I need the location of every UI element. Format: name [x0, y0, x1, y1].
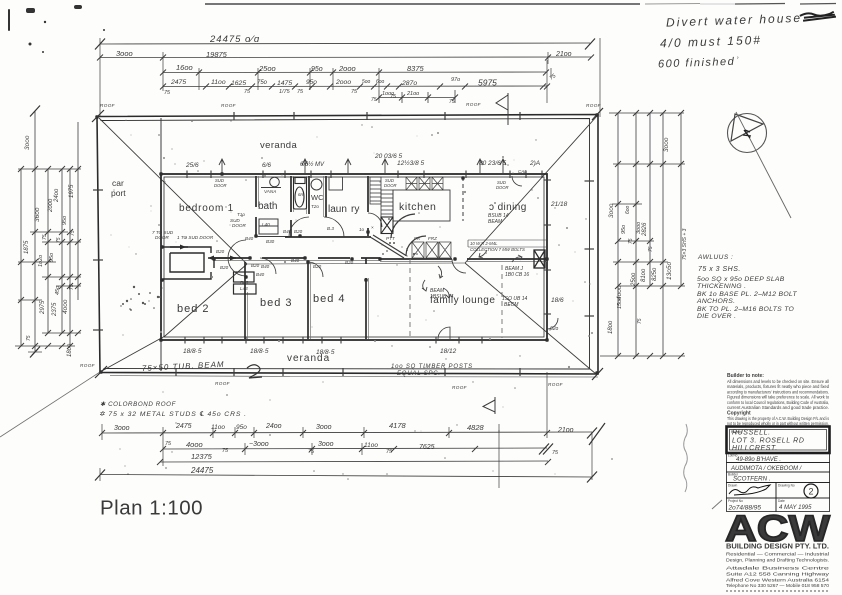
svg-text:DOOR: DOOR: [214, 183, 227, 188]
svg-text:1/75: 1/75: [279, 89, 291, 95]
robe cupboards bed3: [234, 272, 257, 294]
svg-text:287o: 287o: [401, 80, 417, 87]
builder note paragraph: [727, 373, 830, 426]
veranda corner slashes: [92, 108, 603, 380]
svg-text:AWLUUS :: AWLUUS :: [697, 254, 733, 261]
svg-text:11oo: 11oo: [364, 442, 378, 449]
svg-text:1625: 1625: [231, 80, 246, 87]
svg-text:ROOF: ROOF: [215, 381, 231, 386]
svg-text:2)A: 2)A: [529, 160, 540, 167]
kitchen bench outline: [393, 190, 450, 221]
builder row: [727, 472, 830, 483]
svg-text:B40: B40: [256, 272, 265, 277]
door arc dining north: [512, 176, 522, 186]
roof hip diagonal top-right: [465, 116, 597, 263]
svg-text:2ooo: 2ooo: [335, 79, 351, 86]
svg-text:1475: 1475: [277, 80, 292, 87]
window vent arrows: [219, 159, 506, 173]
drawn / drawing no row: [727, 483, 830, 499]
svg-text:DOOR: DOOR: [155, 235, 169, 240]
wall junction ink blobs: [95, 113, 598, 374]
svg-text:Telephone No 330 5267 — Mob: Telephone No 330 5267 — Mobile 018 958 5…: [726, 583, 830, 588]
project box: [727, 427, 830, 454]
svg-text:ROOF: ROOF: [548, 382, 564, 387]
svg-text:80 23/6 5: 80 23/6 5: [479, 160, 506, 167]
svg-text:18/8·5: 18/8·5: [250, 348, 269, 355]
dining fireplace block: [534, 250, 545, 268]
survey flag top: [496, 93, 508, 125]
svg-text:VANA: VANA: [264, 189, 276, 194]
svg-text:EQUAL SPC.: EQUAL SPC.: [397, 371, 441, 377]
svg-text:24475 o⁄ɑ: 24475 o⁄ɑ: [209, 34, 260, 45]
svg-text:bedroom 1: bedroom 1: [179, 203, 234, 214]
svg-text:Divert water house: Divert water house: [666, 11, 802, 30]
svg-text:Design, Planning and Drafti: Design, Planning and Drafting Technologi…: [726, 558, 829, 563]
door arc dining veranda: [547, 318, 558, 329]
svg-text:97o: 97o: [451, 77, 460, 83]
svg-text:75: 75: [297, 89, 304, 95]
svg-text:T2o: T2o: [311, 204, 319, 209]
svg-text:62o: 62o: [550, 326, 559, 332]
svg-text:bath: bath: [258, 201, 277, 212]
svg-text:ROOF: ROOF: [452, 385, 468, 390]
wall WC / laundry: [325, 176, 327, 217]
pantry hatched box: [381, 217, 393, 234]
svg-text:21oo: 21oo: [557, 427, 574, 434]
svg-text:18/12: 18/12: [440, 348, 457, 355]
svg-text:CAL: CAL: [518, 169, 527, 174]
project no / date row: [727, 498, 830, 512]
kitchen / dining dashed divider: [462, 177, 464, 221]
pantry shelving ladder A: [370, 177, 381, 204]
svg-text:3ooo: 3ooo: [116, 49, 133, 58]
svg-text:75: 75: [56, 237, 62, 243]
materials notes: [696, 254, 797, 320]
door arc bed 3: [260, 258, 276, 274]
svg-text:6oo: 6oo: [376, 79, 385, 85]
svg-text:20 03/6 5: 20 03/6 5: [374, 153, 402, 160]
svg-text:75: 75: [244, 89, 251, 95]
svg-text:bed 2: bed 2: [177, 303, 210, 315]
svg-text:ANCHORS.: ANCHORS.: [696, 298, 735, 305]
house external wall (double line): [161, 174, 547, 340]
svg-text:B20: B20: [313, 264, 322, 269]
svg-text:−3ooo: −3ooo: [249, 441, 269, 448]
svg-text:25oo: 25oo: [631, 272, 637, 287]
bottom witness lines: [100, 372, 592, 488]
svg-text:laun: laun: [328, 204, 347, 215]
svg-text:18oo: 18oo: [608, 320, 614, 334]
svg-text:DOOR: DOOR: [232, 223, 246, 228]
corridor south wall: [214, 257, 380, 259]
svg-text:75o: 75o: [257, 80, 268, 86]
svg-text:4ooo: 4ooo: [62, 299, 69, 314]
svg-text:4828: 4828: [467, 423, 485, 432]
survey flag bottom right: [483, 397, 495, 414]
svg-text:1BSUB 14: 1BSUB 14: [430, 294, 454, 300]
svg-text:FRZ: FRZ: [428, 236, 437, 241]
squiggle 2: [247, 365, 262, 378]
svg-text:port: port: [111, 188, 126, 198]
roof hip diagonal top-left: [99, 118, 247, 264]
carport speckle cluster: [120, 242, 418, 311]
svg-text:13o5o: 13o5o: [666, 262, 673, 280]
svg-text:BK TO PL. 2–M16 BOLTS TO: BK TO PL. 2–M16 BOLTS TO: [697, 306, 795, 313]
svg-text:B20: B20: [294, 229, 303, 234]
svg-text:11oo: 11oo: [211, 79, 226, 86]
svg-text:t.: t.: [406, 247, 409, 252]
svg-text:Attadale: Attadale Business Centre: [726, 566, 830, 571]
dimension row T4: [163, 85, 547, 88]
window ticks right wall: [544, 180, 552, 314]
svg-text:7625: 7625: [419, 444, 435, 451]
svg-text:18/8·5: 18/8·5: [316, 349, 335, 356]
svg-text:75: 75: [351, 89, 358, 95]
svg-text:75: 75: [165, 441, 172, 447]
store room in bed zone: [163, 245, 236, 280]
svg-text:SCOTFERN .: SCOTFERN .: [733, 476, 770, 483]
svg-text:veranda: veranda: [260, 140, 297, 151]
svg-text:B40: B40: [245, 236, 254, 241]
svg-text:Project No: Project No: [728, 499, 743, 503]
svg-text:kitchen: kitchen: [399, 201, 436, 213]
svg-text:75: 75: [70, 230, 76, 236]
ACW address lines: [726, 566, 830, 589]
window ticks top wall: [187, 171, 542, 179]
door arc family south: [438, 327, 450, 339]
svg-text:2ooo: 2ooo: [338, 64, 356, 73]
svg-text:3ooo: 3ooo: [608, 203, 615, 218]
svg-text:ROOF: ROOF: [80, 363, 96, 368]
roof ridge line: [247, 263, 465, 264]
svg-text:75: 75: [628, 238, 634, 244]
door arc bed 4: [308, 262, 323, 277]
svg-text:ROOF: ROOF: [221, 103, 237, 108]
svg-text:24oo: 24oo: [54, 188, 60, 203]
svg-text:75×50 TUB. BEAM: 75×50 TUB. BEAM: [142, 360, 225, 373]
wall bed3 / bed4: [307, 262, 309, 339]
svg-text:600 finishedʾ: 600 finishedʾ: [658, 56, 741, 71]
svg-text:B40: B40: [291, 258, 300, 263]
svg-text:B40: B40: [240, 280, 249, 285]
fridge freezer hatched squares: [412, 242, 451, 258]
svg-text:75: 75: [371, 97, 377, 103]
dimension row T2: [100, 56, 591, 59]
bath & laundry south wall: [256, 236, 290, 238]
left dimension tick rows: [15, 169, 81, 352]
svg-text:Drawn: Drawn: [728, 484, 737, 488]
svg-text:75×3 SHS + 3: 75×3 SHS + 3: [682, 228, 688, 260]
kitchen corner diagonal bench: [371, 214, 426, 258]
svg-text:2375: 2375: [52, 302, 58, 317]
drawing number circle: [804, 484, 818, 498]
svg-text:Date: Date: [778, 499, 785, 503]
svg-text:4ooo: 4ooo: [186, 440, 203, 449]
suburb row: [727, 463, 830, 473]
svg-text:2826: 2826: [642, 222, 648, 237]
svg-text:HILLCREST.: HILLCREST.: [732, 445, 778, 452]
dimension row T5: [379, 90, 455, 103]
svg-text:Residential — Commercial —: Residential — Commercial — Industrial: [726, 552, 829, 557]
pencil squiggle left of title block: [684, 424, 688, 492]
dimension row B3: [160, 461, 548, 462]
svg-text:Suite A12 558: Suite A12 558 Canning Highway: [726, 572, 830, 577]
svg-text:75: 75: [549, 73, 558, 82]
svg-text:4/0 must 150#: 4/0 must 150#: [660, 33, 762, 51]
svg-text:ROOF: ROOF: [466, 102, 482, 107]
svg-text:16oo: 16oo: [176, 63, 193, 72]
family / lounge dashed beam lines: [409, 259, 411, 339]
svg-text:Plan 1:100: Plan 1:100: [100, 497, 203, 520]
door arc family entry: [452, 259, 466, 273]
svg-text:95o: 95o: [306, 79, 317, 86]
svg-text:L40: L40: [262, 222, 270, 227]
big slash bottom right: [589, 423, 605, 445]
door arc WC: [289, 217, 309, 237]
svg-text:FR: FR: [414, 236, 421, 241]
dimension row B2: [163, 448, 547, 449]
svg-text:Drawing No: Drawing No: [778, 484, 795, 488]
svg-text:18/6: 18/6: [551, 297, 564, 304]
svg-text:bed 3: bed 3: [260, 297, 293, 309]
pencil note line 1: Divert water house: [666, 10, 836, 30]
svg-text:BECM: BECM: [504, 302, 519, 308]
svg-text:3ooo: 3ooo: [316, 424, 332, 431]
svg-text:95o: 95o: [236, 424, 247, 431]
svg-text:8375: 8375: [407, 64, 425, 73]
scan speckle dots: [111, 120, 613, 480]
svg-text:1ooo: 1ooo: [382, 91, 394, 97]
svg-text:75: 75: [637, 318, 643, 324]
svg-text:12375: 12375: [191, 452, 213, 461]
svg-text:75: 75: [449, 99, 455, 105]
svg-text:1B0 CB 16: 1B0 CB 16: [505, 272, 529, 278]
svg-text:6/6: 6/6: [262, 162, 271, 169]
svg-text:21/18: 21/18: [550, 201, 568, 208]
svg-text:3ooo: 3ooo: [114, 425, 130, 432]
svg-text:6/6½ MV: 6/6½ MV: [300, 161, 325, 168]
svg-text:current Australian Standards a: current Australian Standards and good tr…: [727, 405, 829, 410]
svg-text:6oo: 6oo: [625, 205, 631, 214]
right dimension tick rows: [600, 113, 685, 356]
svg-text:36oo: 36oo: [34, 207, 41, 222]
svg-text:95o: 95o: [62, 216, 68, 225]
veranda post marks: [93, 112, 594, 376]
svg-text:WC: WC: [311, 193, 324, 202]
dining collection bolts note box: [468, 240, 546, 247]
page top edge line: [205, 3, 836, 6]
svg-text:B20: B20: [345, 260, 354, 265]
dimension row T3: [163, 71, 546, 74]
svg-text:bed 4: bed 4: [313, 293, 346, 305]
svg-text:B20: B20: [216, 249, 225, 254]
pantry shelving ladder B: [381, 190, 393, 217]
svg-text:BEAM: BEAM: [488, 219, 503, 225]
dimension row B1: [102, 432, 592, 433]
svg-text:95o: 95o: [621, 225, 627, 234]
svg-text:RUSSELL.: RUSSELL.: [732, 430, 771, 437]
veranda outer edge (double line): [97, 115, 598, 378]
svg-text:DIE OVER .: DIE OVER .: [697, 313, 736, 320]
signature: [729, 485, 770, 495]
diagonal continuation past corner bottom-left: [0, 372, 100, 437]
hall linen cupboard: [259, 219, 278, 234]
svg-text:19875: 19875: [206, 50, 228, 59]
dimension row B4: [100, 475, 592, 478]
svg-text:1o: 1o: [359, 227, 365, 232]
svg-text:81oo: 81oo: [641, 268, 647, 282]
scribble arrows family: [422, 250, 522, 298]
svg-text:1 TO SUD DOOR: 1 TO SUD DOOR: [177, 235, 214, 240]
svg-text:75: 75: [222, 448, 229, 454]
svg-text:DOOR: DOOR: [496, 185, 509, 190]
right dimension chains: [618, 113, 681, 356]
svg-text:21oo: 21oo: [555, 51, 572, 58]
wall WC / laundry: [308, 176, 310, 214]
svg-text:B20: B20: [251, 263, 260, 268]
svg-text:B20: B20: [220, 265, 229, 270]
right rotated dimension numbers: [608, 137, 673, 334]
svg-text:3ooo: 3ooo: [318, 441, 334, 448]
svg-text:75: 75: [42, 234, 48, 240]
svg-text:75: 75: [164, 90, 171, 96]
svg-text:18/8·5: 18/8·5: [183, 348, 202, 355]
carport / veranda strip divider: [160, 118, 162, 371]
bath tub in nook: [294, 177, 307, 209]
svg-text:1o2o: 1o2o: [38, 255, 44, 267]
wall laundry / kitchen: [367, 176, 369, 236]
top-left corner specks: [8, 5, 105, 53]
svg-text:2: 2: [809, 487, 814, 497]
laundry trough: [329, 177, 343, 190]
svg-text:3ooo: 3ooo: [24, 135, 31, 150]
svg-text:15oo: 15oo: [617, 297, 623, 309]
kitchen window hatched squares: [406, 177, 443, 190]
dimension row T4 75 sublabels: [164, 73, 558, 100]
svg-text:825o: 825o: [652, 267, 658, 281]
svg-text:24oo: 24oo: [265, 423, 282, 430]
svg-text:75: 75: [308, 449, 315, 455]
svg-text:10 W.R 2-M4L: 10 W.R 2-M4L: [470, 241, 498, 246]
svg-text:ROOF: ROOF: [586, 103, 602, 108]
svg-text:BK 1o BASE PL. 2–M12 BOLT: BK 1o BASE PL. 2–M12 BOLT: [697, 291, 797, 298]
svg-text:L43: L43: [240, 286, 248, 291]
roof hip diagonal bottom-left: [100, 264, 247, 372]
svg-text:car: car: [112, 178, 124, 188]
family north / dining south wall: [380, 258, 547, 260]
svg-text:COLLECTION 7 MW BOLTS: COLLECTION 7 MW BOLTS: [470, 247, 525, 252]
svg-text:12½3/8 5: 12½3/8 5: [397, 159, 424, 167]
svg-text:5oo: 5oo: [362, 79, 371, 85]
dimension row T1: 24475 o/a: [100, 43, 590, 44]
door arc kitchen entry: [368, 213, 382, 227]
svg-text:2475: 2475: [175, 423, 192, 430]
WC pan: [311, 179, 322, 190]
left dimension chains: [21, 111, 78, 352]
dotted strip under logo: [726, 590, 830, 592]
svg-text:1975: 1975: [69, 184, 75, 198]
roof labels: [80, 102, 602, 390]
svg-text:18oo: 18oo: [67, 343, 73, 357]
window ticks bottom wall: [185, 337, 482, 344]
wall bath / WC: [290, 176, 292, 237]
svg-text:6m: 6m: [298, 192, 305, 197]
svg-text:5oo SQ x 95o DEEP SLAB: 5oo SQ x 95o DEEP SLAB: [697, 276, 785, 283]
svg-text:AUDIMOTA / OKEBOOM /: AUDIMOTA / OKEBOOM /: [730, 466, 803, 472]
left rotated dimension numbers: [24, 135, 76, 357]
svg-text:B40: B40: [283, 229, 292, 234]
svg-text:B40: B40: [261, 264, 270, 269]
svg-text:PTT: PTT: [386, 236, 396, 241]
svg-text:2475: 2475: [170, 79, 186, 86]
svg-text:THICKENING .: THICKENING .: [697, 283, 746, 290]
svg-text:95o: 95o: [49, 253, 55, 262]
svg-text:2975: 2975: [40, 300, 46, 315]
svg-text:75: 75: [552, 450, 559, 456]
svg-text:B.3: B.3: [327, 226, 334, 231]
door arc laundry: [324, 217, 344, 237]
lot address row: [727, 453, 830, 463]
wall bedroom1 / bath: [255, 176, 257, 236]
svg-text:LOT 3. ROSELL RD: LOT 3. ROSELL RD: [732, 438, 805, 445]
svg-text:25oo: 25oo: [258, 64, 276, 73]
svg-text:BUILDING DESIGN PTY. LTD.: BUILDING DESIGN PTY. LTD.: [726, 542, 829, 551]
svg-text:1oo SQ TIMBER POSTS: 1oo SQ TIMBER POSTS: [391, 364, 473, 370]
wall bed2 / bed3: [244, 262, 246, 339]
svg-text:1875: 1875: [24, 240, 30, 254]
svg-text:24475: 24475: [190, 466, 214, 475]
hall stub wall: [213, 258, 215, 268]
svg-text:25/6: 25/6: [185, 162, 199, 169]
wall bed4 / family: [365, 258, 367, 339]
svg-text:B30: B30: [266, 239, 275, 244]
door arc bed 2 semicircle: [228, 240, 246, 276]
svg-text:✲ 75 x 32 METAL STUDS ℄ 45: ✲ 75 x 32 METAL STUDS ℄ 45o CRS .: [99, 411, 247, 418]
svg-text:95o: 95o: [311, 66, 323, 73]
svg-text:4178: 4178: [389, 421, 407, 430]
north point symbol: [728, 112, 792, 218]
svg-text:ry: ry: [351, 204, 359, 215]
svg-text:75: 75: [386, 449, 393, 455]
svg-text:75: 75: [26, 335, 32, 341]
svg-text:45o: 45o: [55, 286, 61, 295]
svg-text:✱ COLORBOND ROOF: ✱ COLORBOND ROOF: [100, 401, 177, 408]
svg-text:5975: 5975: [478, 78, 497, 88]
svg-text:75: 75: [648, 246, 654, 252]
top witness lines: [100, 38, 600, 117]
interior fitting labels: [152, 189, 437, 291]
svg-text:3ooo: 3ooo: [663, 137, 670, 152]
svg-text:75 x 3 SHS.: 75 x 3 SHS.: [698, 266, 741, 273]
svg-text:ROOF: ROOF: [100, 103, 116, 108]
svg-text:75: 75: [69, 284, 75, 290]
roof hip diagonal bottom-right: [465, 263, 596, 374]
bath vanity basin: [261, 177, 281, 187]
svg-text:21oo: 21oo: [406, 91, 419, 97]
svg-text:DOOR: DOOR: [384, 183, 397, 188]
svg-text:×: ×: [371, 225, 374, 230]
svg-text:Alfred Cove Western Au: Alfred Cove Western Australia 6154: [726, 578, 830, 583]
